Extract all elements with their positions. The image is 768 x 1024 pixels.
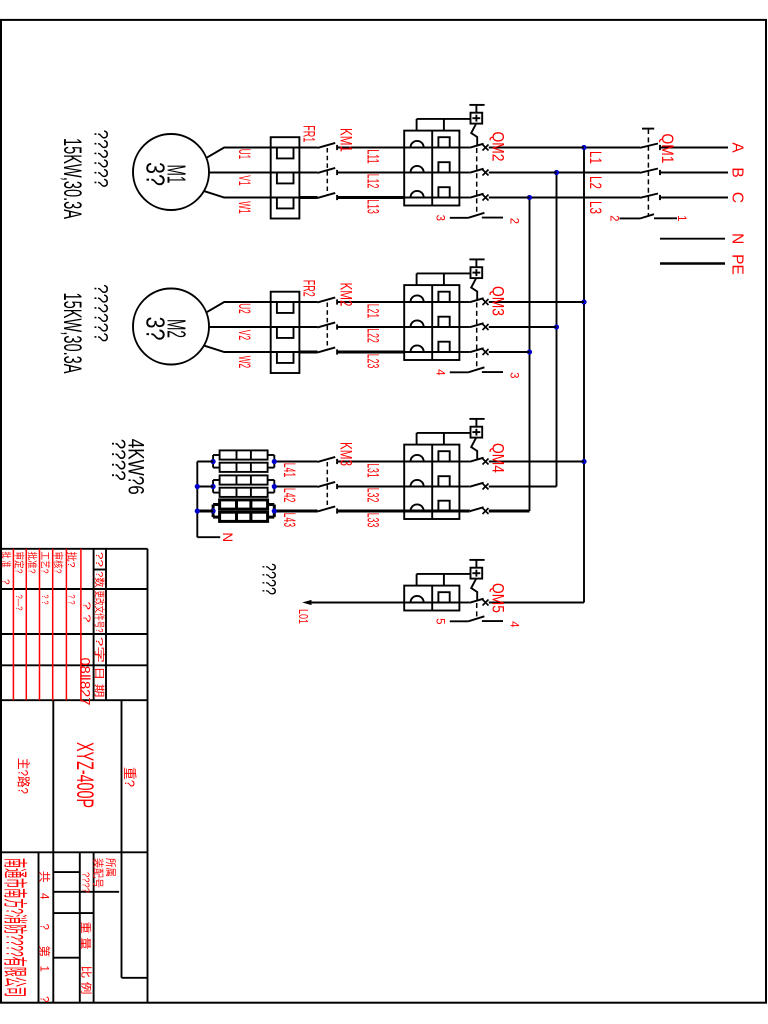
wire W1 to motor M1 (204, 191, 270, 197)
thermal relay FR1 heater element (271, 198, 300, 209)
svg-text:L21: L21 (364, 304, 382, 319)
svg-text:批 准: 批 准 (0, 552, 13, 568)
svg-text:L31: L31 (364, 463, 382, 478)
svg-text:L11: L11 (364, 149, 382, 164)
breaker QM2 handle stub (475, 105, 477, 113)
breaker QM5 pole contact with x-mark (459, 599, 488, 606)
svg-text:4: 4 (434, 369, 446, 376)
wire W1 KM1 to FR1 (bold) (299, 196, 317, 199)
svg-text:FR1: FR1 (300, 125, 318, 142)
wire N rail stub up (197, 536, 220, 538)
svg-text:4: 4 (508, 621, 520, 628)
breaker QM2 trip linkage zigzag (471, 124, 477, 145)
wire branch2 L2 drop to QM3 (489, 326, 557, 328)
breaker QM5 handle stub (475, 560, 477, 568)
junction N rail heater 2 (195, 484, 200, 489)
svg-text:A: A (729, 142, 746, 153)
svg-text:?: ? (0, 579, 11, 585)
breaker QM4 trip test button box (471, 427, 483, 438)
wire neutral N stub (660, 238, 725, 240)
wire L22 QM3 to KM2 (337, 326, 404, 328)
bus L1 (583, 148, 585, 603)
breaker QM2 trip test button box (471, 113, 483, 124)
svg-text:L23: L23 (364, 354, 382, 369)
svg-text:批准?: 批准? (26, 552, 39, 574)
contactor KM1 linkage dashed line (326, 148, 328, 196)
wire heater 1 to N rail (197, 461, 213, 463)
svg-text:?字: ?字 (93, 637, 106, 663)
svg-text:??: ?? (93, 552, 105, 567)
breaker QM2 magnetic element (411, 141, 424, 148)
contactor KM2 linkage dashed line (326, 303, 328, 351)
contactor KM1 pole contact (318, 193, 338, 200)
svg-text:FR2: FR2 (300, 280, 318, 297)
junction heater 1 return (210, 459, 215, 464)
breaker QM2 operating handle T-bar (469, 104, 484, 106)
title block assembly number label (92, 858, 118, 888)
wire branch2 L3 drop to QM3 (489, 351, 530, 353)
wire L11 QM2 to KM1 (337, 147, 404, 149)
svg-text:KM1: KM1 (337, 128, 355, 152)
breaker QM4 magnetic element (411, 455, 424, 462)
breaker QM3 trip unit box (404, 285, 459, 360)
breaker QM2 thermal element (404, 187, 459, 197)
breaker QM3 operating handle T-bar (469, 258, 484, 260)
title block horizontal dividers (39, 549, 122, 1003)
breaker QM2 linkage dashed line (476, 148, 478, 213)
junction heater 3 return (210, 508, 215, 513)
wire branch3 L1 drop to QM4 (489, 461, 584, 463)
junction bus L2 branch 2 (554, 324, 559, 329)
motor M1 circle (133, 134, 209, 210)
svg-text:?—?: ?—? (14, 595, 24, 611)
breaker QM2 magnetic element (411, 191, 424, 198)
wire L3 drop to QM2 (489, 197, 530, 199)
svg-text:3?: 3? (141, 317, 171, 341)
svg-text:L2: L2 (586, 176, 604, 189)
wire N rail (196, 462, 198, 538)
wire L32 QM4 to KM3 (337, 486, 404, 488)
wire phase A incoming (660, 147, 728, 149)
svg-text:KM3: KM3 (337, 442, 355, 466)
svg-text:L22: L22 (364, 328, 382, 343)
svg-text:? ?: ? ? (81, 602, 92, 624)
svg-text:重 量: 重 量 (79, 922, 93, 950)
breaker QM3 trip linkage zigzag (471, 278, 477, 299)
thermal relay FR2 heater element (271, 352, 300, 363)
wire phase B incoming (660, 172, 728, 174)
heater bank 1 bottom bracket (213, 455, 220, 468)
svg-text:?: ? (38, 996, 50, 1002)
junction bus L3 branch 2 (527, 349, 532, 354)
title block sheet count: sheet 1 (38, 946, 52, 1003)
breaker QM3 auxiliary contact (450, 367, 503, 372)
wire L1 drop to QM2 (489, 147, 584, 149)
breaker QM4 trip unit box (404, 445, 459, 519)
wire branch3 L3 drop to QM4 (bold) (489, 510, 530, 513)
contactor KM1 pole contact (318, 168, 338, 175)
svg-text:B: B (729, 167, 746, 177)
breaker QM3 magnetic element (411, 320, 424, 327)
wire QM1 pole B to bus L2 (557, 172, 641, 174)
svg-text:?: ? (38, 924, 50, 930)
svg-text:4: 4 (38, 893, 50, 900)
svg-text:? ?: ? ? (40, 595, 50, 605)
svg-text:3: 3 (508, 372, 520, 378)
wire L2 drop to QM2 (489, 172, 557, 174)
contactor KM3 linkage dashed line (326, 462, 328, 510)
wire V2 KM2 to FR2 (299, 326, 317, 328)
svg-text:2: 2 (608, 215, 620, 221)
disconnector QM1 pole contact (640, 169, 660, 176)
svg-text:L33: L33 (364, 513, 382, 528)
svg-text:批?: 批? (65, 552, 78, 568)
breaker QM4 thermal element (404, 476, 459, 486)
breaker QM3 magnetic element (411, 295, 424, 302)
svg-text:KM2: KM2 (337, 283, 355, 307)
svg-text:15KW,30.3A: 15KW,30.3A (58, 138, 86, 219)
svg-text:????: ???? (258, 563, 279, 595)
junction bus L1 branch 3 (581, 459, 586, 464)
svg-text:L01: L01 (296, 609, 311, 624)
breaker QM4 handle stub (475, 419, 477, 427)
contactor KM3 pole contact (318, 482, 338, 489)
breaker QM2 pole contact with x-mark (459, 169, 488, 176)
svg-text:共: 共 (38, 871, 51, 883)
svg-text:日 期: 日 期 (93, 667, 105, 698)
svg-text:装配号: 装配号 (92, 858, 105, 888)
breaker QM4 thermal element (404, 451, 459, 461)
svg-text:L41: L41 (280, 463, 298, 478)
contactor KM2 pole contact (318, 347, 338, 354)
breaker QM5 trip test button box (471, 568, 483, 579)
svg-text:第: 第 (38, 946, 52, 958)
breaker QM5 trip unit box (404, 586, 459, 611)
svg-text:15KW,30.3A: 15KW,30.3A (58, 293, 86, 374)
title block vertical dividers (1, 570, 148, 978)
heater bank 3 top bracket (268, 505, 275, 518)
svg-text:所属: 所属 (104, 858, 117, 877)
thermal relay FR2 box (271, 292, 300, 373)
wire U1 KM1 to FR1 (299, 147, 317, 149)
svg-text:QM5: QM5 (489, 583, 507, 613)
wire phase C incoming (660, 197, 728, 199)
thermal relay FR1 box (271, 137, 300, 218)
signature rows column labels (0, 552, 78, 611)
thermal relay FR2 heater element (271, 327, 300, 338)
svg-text:1: 1 (38, 966, 50, 972)
junction bus L1 branch 2 (581, 299, 586, 304)
breaker QM2 pole contact with x-mark (459, 194, 488, 201)
wire L12 QM2 to KM1 (337, 172, 404, 174)
breaker QM5 linkage dashed line (476, 603, 478, 617)
svg-text:QM3: QM3 (489, 286, 507, 316)
svg-text:? ?: ? ? (67, 595, 77, 605)
breaker QM4 operating handle T-bar (469, 418, 484, 420)
junction N rail heater 3 (195, 508, 200, 513)
wire heater 2 to N rail (197, 486, 213, 488)
disconnector QM1 operating handle (642, 128, 654, 130)
heater bank 2 top bracket (268, 480, 275, 493)
breaker QM4 pole contact with x-mark (459, 483, 488, 490)
breaker QM2 pole contact with x-mark (459, 144, 488, 151)
wire L21 QM3 to KM2 (337, 301, 404, 303)
breaker QM3 magnetic element (411, 345, 424, 352)
breaker QM4 pole contact with x-mark (459, 507, 488, 514)
breaker QM2 trip unit box (404, 131, 459, 206)
junction heater 2 feed (272, 484, 277, 489)
heater bank 3 bottom bracket (213, 505, 220, 518)
breaker QM2 release link bridge (417, 119, 471, 131)
svg-text:08Ⅱ827: 08Ⅱ827 (78, 658, 94, 706)
wire L41 KM3 to heater 1 (274, 461, 317, 463)
svg-text:南通市南方?消防????有限公司: 南通市南方?消防????有限公司 (1, 858, 29, 997)
svg-text:L12: L12 (364, 174, 382, 189)
disconnector QM1 pole contact (640, 194, 660, 201)
heater bank 1 top bracket (268, 455, 275, 468)
svg-text:L3: L3 (586, 201, 604, 214)
wire L42 KM3 to heater 2 (274, 486, 317, 488)
wire W2 KM2 to FR2 (299, 351, 317, 354)
breaker QM4 trip linkage zigzag (471, 438, 477, 459)
breaker QM5 thermal element (404, 592, 459, 602)
svg-text:3?: 3? (141, 162, 171, 186)
breaker QM3 pole contact with x-mark (459, 298, 488, 305)
breaker QM3 thermal element (404, 317, 459, 327)
wire QM1 pole C to bus L3 (530, 197, 641, 199)
wire V1 KM1 to FR1 (299, 172, 317, 174)
svg-text:C: C (729, 192, 746, 203)
wire W2 to motor M2 (204, 346, 270, 352)
title block outer lines (1, 549, 148, 1003)
breaker QM4 pole contact with x-mark (459, 458, 488, 465)
svg-text:U2: U2 (235, 303, 253, 314)
junction heater 1 feed (272, 459, 277, 464)
wire PE stub (660, 262, 725, 265)
svg-text:V2: V2 (235, 330, 253, 341)
breaker QM5 auxiliary contact (450, 616, 503, 621)
heater bank 2 bottom bracket (213, 480, 220, 493)
wire U1 to motor M1 (207, 148, 271, 158)
contactor KM2 pole contact (318, 297, 338, 304)
svg-text:审核?: 审核? (52, 552, 65, 574)
contactor KM3 pole contact (318, 506, 338, 513)
svg-text:U1: U1 (235, 149, 253, 160)
wire QM1 pole A to bus L1 (584, 147, 640, 149)
wire L31 QM4 to KM3 (337, 461, 404, 463)
svg-text:?数: ?数 (93, 572, 106, 588)
svg-text:审定?: 审定? (13, 552, 26, 574)
svg-text:????: ???? (80, 872, 92, 893)
junction bus L3 branch 1 (527, 195, 532, 200)
svg-text:??????: ?????? (90, 284, 112, 342)
wire V1 to motor M1 (209, 172, 271, 174)
svg-text:??????: ?????? (90, 130, 112, 188)
wire heater 3 to N rail (197, 510, 213, 513)
breaker QM3 thermal element (404, 342, 459, 352)
breaker QM3 pole contact with x-mark (459, 323, 488, 330)
breaker QM4 magnetic element (411, 504, 424, 511)
svg-text:N: N (729, 233, 746, 244)
junction bus L1 branch 1 (581, 145, 586, 150)
contactor KM3 pole contact (318, 457, 338, 464)
breaker QM5 operating handle T-bar (469, 559, 484, 561)
svg-text:L43: L43 (280, 513, 298, 528)
wire L33 QM4 to KM3 (bold) (337, 510, 404, 513)
svg-text:L13: L13 (364, 199, 382, 214)
svg-text:L1: L1 (586, 151, 604, 164)
breaker QM3 trip test button box (471, 267, 483, 278)
svg-text:2: 2 (508, 218, 520, 224)
svg-text:XYZ-400P: XYZ-400P (71, 742, 98, 808)
thermal relay FR2 heater element (271, 302, 300, 313)
svg-text:QM4: QM4 (489, 443, 507, 473)
breaker QM3 release link bridge (417, 273, 471, 285)
svg-text:????: ???? (107, 439, 128, 481)
breaker QM2 thermal element (404, 162, 459, 172)
motor M2 circle (133, 289, 209, 365)
thermal relay FR1 heater element (271, 173, 300, 184)
svg-text:V1: V1 (235, 175, 253, 186)
heater bank 1 parallel resistor boxes (220, 450, 268, 472)
breaker QM5 magnetic element (411, 596, 424, 603)
breaker QM5 release link bridge (417, 574, 471, 586)
breaker QM3 pole contact with x-mark (459, 348, 488, 355)
svg-text:L32: L32 (364, 488, 382, 503)
svg-text:W2: W2 (235, 356, 253, 369)
svg-text:主?路?: 主?路? (16, 758, 31, 794)
breaker QM2 thermal element (404, 137, 459, 147)
breaker QM4 release link bridge (417, 433, 471, 445)
revision table red row lines (13, 549, 81, 700)
junction bus L2 branch 1 (554, 170, 559, 175)
wire L23 QM3 to KM2 (337, 351, 404, 354)
title block sheet count: total 4 (38, 871, 51, 930)
junction heater 3 feed (272, 508, 277, 513)
breaker QM4 thermal element (404, 501, 459, 511)
svg-text:QM2: QM2 (489, 132, 507, 162)
disconnector QM1 linkage dashed line (647, 129, 649, 215)
contactor KM2 pole contact (318, 322, 338, 329)
breaker QM5 trip linkage zigzag (471, 579, 477, 600)
svg-text:L42: L42 (280, 488, 298, 503)
svg-text:重?: 重? (122, 767, 137, 787)
svg-text:比 例: 比 例 (80, 966, 94, 995)
wire L01 QM5 outgoing with arrow (302, 600, 404, 605)
breaker QM4 magnetic element (411, 480, 424, 487)
wire bus L1 corner drop to QM5 (489, 602, 584, 604)
bus L3 (529, 198, 531, 512)
breaker QM3 handle stub (475, 259, 477, 267)
disconnector QM1 pole contact (640, 144, 660, 151)
wire branch3 L2 drop to QM4 (489, 486, 557, 488)
svg-text:5: 5 (434, 618, 446, 624)
breaker QM3 linkage dashed line (476, 303, 478, 368)
svg-text:更改文件号?: 更改文件号? (93, 591, 106, 633)
disconnector QM1 auxiliary pole (620, 214, 678, 218)
junction heater 2 return (210, 484, 215, 489)
svg-text:3: 3 (434, 215, 446, 221)
bus L2 (556, 173, 558, 487)
wire branch2 L1 drop to QM3 (489, 301, 584, 303)
svg-text:PE: PE (729, 254, 746, 275)
breaker QM3 thermal element (404, 292, 459, 302)
breaker QM2 magnetic element (411, 166, 424, 173)
wire L43 KM3 to heater 3 (bold) (274, 510, 317, 513)
wire U2 KM2 to FR2 (299, 301, 317, 303)
wire L13 QM2 to KM1 (bold) (337, 196, 404, 199)
wire U2 to motor M2 (207, 302, 271, 312)
contactor KM1 pole contact (318, 143, 338, 150)
svg-text:W1: W1 (235, 201, 253, 214)
svg-text:工艺?: 工艺? (39, 552, 51, 574)
breaker QM2 auxiliary contact (450, 213, 503, 218)
wire V2 to motor M2 (209, 326, 271, 328)
heater bank 2 parallel resistor boxes (220, 475, 268, 497)
thermal relay FR1 heater element (271, 148, 300, 159)
svg-text:N: N (220, 532, 235, 542)
heater bank 3 parallel resistor boxes (220, 500, 268, 522)
